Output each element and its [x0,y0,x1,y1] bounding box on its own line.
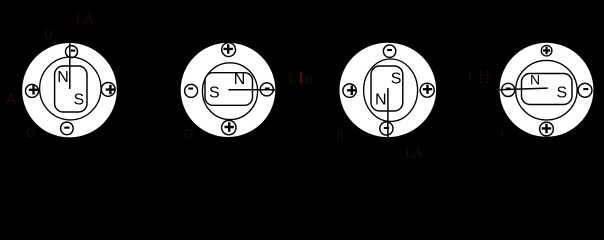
unit 1 electrode top circle [66,46,78,58]
unit 3 electrode bottom circle [380,122,393,135]
svg-text:S: S [557,85,568,102]
unit 1 electrode right circle [101,83,115,97]
unit 3 electrode right plus sign [423,85,432,94]
unit 3 outer disc [340,43,437,137]
unit 3 magnet body [371,66,403,111]
unit 3 electrode bottom minus sign [384,127,389,129]
svg-text:N: N [375,92,387,109]
unit 1 electrode left plus sign [29,85,38,94]
unit 4 rod wire [500,88,548,90]
unit 1 magnet body [55,66,87,112]
unit 4 electrode left minus sign [506,88,511,90]
svg-text:S: S [391,70,402,87]
unit 2 electrode right circle [260,83,273,96]
unit 4 electrode bottom circle [540,122,554,136]
unit 2 electrode left minus sign [188,88,193,90]
svg-text:B: B [305,72,314,87]
unit 2 magnet body [205,73,253,106]
unit 4 electrode top plus sign [543,47,550,54]
unit 2 outer disc [181,43,276,137]
unit 4 red caption bars [470,71,488,85]
svg-text:!: ! [500,128,504,143]
unit 4 electrode bottom plus sign [542,124,551,133]
unit 4 electrode top circle [541,45,552,56]
unit 3 electrode top circle [383,45,395,57]
unit 1 electrode top minus sign [71,50,75,52]
svg-text:S: S [74,92,85,109]
unit 1 electrode right plus sign [106,85,115,94]
svg-text:S: S [209,84,220,101]
unit 3 electrode right circle [420,83,434,97]
unit 4 magnet body [522,74,573,105]
unit 1 inner ring [40,57,101,120]
unit 4 electrode right circle [578,83,592,97]
unit 4 electrode left circle [502,83,515,96]
svg-text:Il: Il [337,128,344,143]
unit 1 electrode bottom minus sign [64,127,69,129]
unit 3 electrode top minus sign [387,49,392,51]
unit 1 rod wire [69,43,71,89]
unit 2 inner ring [202,63,257,120]
unit 2 electrode left circle [185,84,198,97]
svg-text:Ü: Ü [44,28,53,42]
unit 4 electrode right minus sign [583,88,588,90]
unit 3 rod wire [387,88,389,138]
svg-text:I.Á: I.Á [405,145,424,162]
unit 2 electrode top circle [222,43,236,57]
unit 2 electrode right minus sign [265,88,270,90]
unit 3 inner ring [364,59,418,121]
unit 2 electrode bottom plus sign [225,122,234,131]
svg-text:N: N [57,69,69,86]
unit 4 inner ring [516,60,577,120]
unit 3 electrode left circle [343,84,356,97]
svg-text:I.Á: I.Á [76,11,95,28]
unit 2 red caption bar [300,71,303,83]
unit 1 electrode bottom circle [61,122,74,135]
unit 2 rod wire [229,89,276,91]
svg-text:N: N [530,72,540,88]
unit 2 electrode top plus sign [224,44,233,53]
svg-text:D: D [184,126,193,141]
unit 2 red caption left mark [290,73,292,85]
unit 1 electrode left circle [26,84,39,97]
svg-text:N: N [234,71,246,88]
unit 1 outer disc [22,43,117,137]
unit 2 electrode bottom circle [222,120,236,134]
svg-text:A: A [6,91,16,108]
svg-text:G: G [26,125,36,140]
unit 3 electrode left plus sign [347,86,356,95]
unit 4 outer disc [500,43,594,137]
